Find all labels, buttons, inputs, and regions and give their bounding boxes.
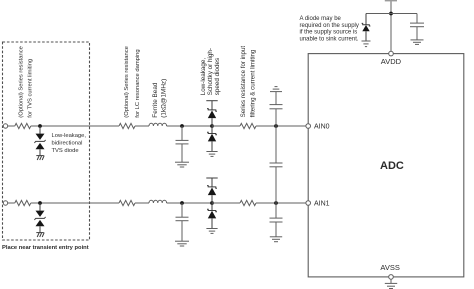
resistor R2 (LC damping)	[119, 123, 135, 128]
wire	[256, 125, 306, 127]
wire	[8, 125, 15, 127]
pin AIN1	[306, 201, 311, 206]
svg-text:speed diodes: speed diodes	[214, 58, 221, 95]
ground for AVSS	[385, 279, 397, 288]
node D (cap ladder junction AIN0)	[274, 124, 278, 128]
capacitor C4 (AIN0 to AIN1)	[270, 126, 283, 203]
terminal J2	[3, 201, 7, 205]
svg-text:(1kΩ@1MHz): (1kΩ@1MHz)	[160, 79, 167, 118]
pin AIN0	[306, 124, 311, 129]
capacitor C3 (AIN0 to ground)	[270, 92, 283, 126]
capacitor C1	[176, 126, 189, 162]
svg-text:AIN1: AIN1	[314, 201, 330, 208]
svg-text:required on the supply: required on the supply	[300, 23, 359, 29]
label FB1 vertical	[152, 79, 168, 118]
svg-text:bidirectional: bidirectional	[52, 140, 83, 146]
svg-text:A diode may be: A diode may be	[300, 16, 342, 22]
node C (schottky junction AIN0)	[210, 124, 214, 128]
ground for D3	[206, 152, 217, 157]
supply rail stub	[385, 0, 397, 1]
pin AVDD	[389, 51, 394, 56]
node F (C2 junction)	[180, 201, 184, 205]
node G (schottky junction AIN1)	[210, 201, 214, 205]
node H (cap ladder junction AIN1)	[274, 201, 278, 205]
label R3 vertical	[240, 46, 257, 118]
wire	[8, 202, 15, 204]
svg-text:for LC resonance damping: for LC resonance damping	[135, 49, 141, 117]
svg-text:AVSS: AVSS	[380, 263, 399, 272]
ground for C1	[175, 162, 189, 167]
node A (R1/TVS junction, AIN0 line)	[38, 124, 42, 128]
schottky diode D6 (to ground)	[207, 203, 217, 229]
pin AVSS	[389, 275, 394, 280]
label R1 vertical	[18, 46, 33, 118]
svg-text:for TVS current limiting: for TVS current limiting	[27, 59, 33, 118]
node J (AVDD branch junction)	[389, 12, 393, 16]
wire	[135, 125, 149, 127]
svg-text:TVS diode: TVS diode	[52, 148, 79, 154]
node E (R4/TVS junction, AIN1 line)	[38, 201, 42, 205]
ground for C5	[270, 237, 282, 242]
resistor R1 (TVS current limiting)	[15, 123, 31, 128]
svg-text:AVDD: AVDD	[381, 57, 402, 66]
wire	[31, 202, 119, 204]
resistor R4	[15, 200, 31, 205]
svg-text:Place near transient entry poi: Place near transient entry point	[2, 245, 89, 251]
ground (up)	[270, 87, 282, 92]
capacitor C5 (AIN1 to ground)	[270, 203, 283, 237]
svg-text:Series resistance for input: Series resistance for input	[240, 46, 247, 118]
ground for D6	[206, 229, 217, 234]
wire	[390, 1, 392, 51]
wire	[212, 125, 240, 127]
svg-text:unable to sink current.: unable to sink current.	[300, 36, 359, 42]
wire	[167, 125, 212, 127]
terminal J1	[3, 124, 7, 128]
label R2 vertical	[124, 46, 141, 118]
ground for C6	[411, 40, 424, 45]
svg-text:AIN0: AIN0	[314, 124, 330, 131]
resistor R3 (input filtering)	[240, 123, 256, 128]
wire	[135, 202, 149, 204]
wire	[366, 13, 417, 15]
node B (C1 junction)	[180, 124, 184, 128]
resistor R6	[240, 200, 256, 205]
svg-text:Low-leakage,: Low-leakage,	[52, 133, 87, 139]
TVS diode D1 (bidirectional)	[34, 126, 45, 156]
ground for D7	[362, 41, 371, 47]
svg-text:if the supply source is: if the supply source is	[300, 30, 358, 36]
schottky diode D2 (to supply bar)	[206, 101, 217, 126]
svg-text:Ferrite Bead: Ferrite Bead	[152, 82, 159, 118]
svg-text:(Optional) Series resistance: (Optional) Series resistance	[18, 46, 24, 118]
schottky diode D5 (to supply bar)	[206, 178, 217, 203]
schottky diode D3 (to ground)	[207, 126, 217, 152]
capacitor C6 (supply decoupling)	[410, 14, 424, 40]
wire	[256, 202, 306, 204]
ferrite bead FB1	[149, 123, 167, 126]
schottky diode D7 (supply clamp)	[362, 14, 371, 42]
wire	[31, 125, 119, 127]
svg-text:ADC: ADC	[380, 160, 404, 172]
TVS diode D4 (bidirectional)	[34, 203, 45, 233]
resistor R5	[119, 200, 135, 205]
capacitor C2	[176, 203, 189, 241]
wire	[167, 202, 212, 204]
ground for C2	[175, 241, 189, 246]
ground (chassis) for D4	[36, 233, 44, 237]
ferrite bead FB2	[149, 200, 167, 203]
dashed box: place near transient entry point	[3, 42, 90, 240]
ground (chassis) for D1	[36, 156, 44, 160]
svg-text:(Optional) Series resistance: (Optional) Series resistance	[124, 46, 130, 118]
svg-text:filtering & current limiting: filtering & current limiting	[250, 49, 257, 117]
label schottky vertical	[200, 48, 221, 95]
wire	[212, 202, 240, 204]
